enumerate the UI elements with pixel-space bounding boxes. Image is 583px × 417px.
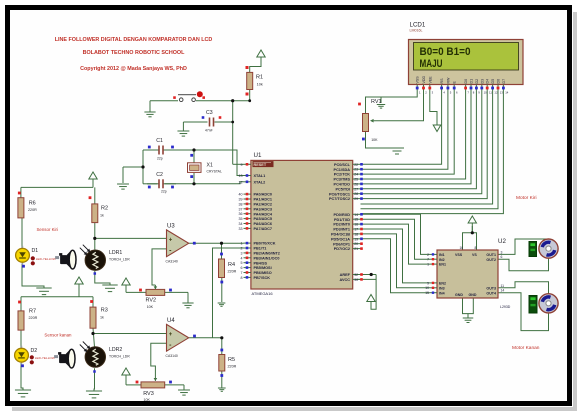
svg-text:PA3/ADC3: PA3/ADC3	[254, 207, 273, 211]
svg-text:PD1/TXD: PD1/TXD	[334, 218, 350, 222]
svg-text:PC6/TOSC1: PC6/TOSC1	[329, 192, 350, 196]
svg-text:39: 39	[239, 198, 243, 202]
svg-text:Motor Kiri: Motor Kiri	[516, 195, 537, 201]
svg-text:CRYSTAL: CRYSTAL	[207, 170, 222, 174]
svg-text:R2: R2	[101, 206, 108, 212]
svg-text:PB0/T0/XCK: PB0/T0/XCK	[254, 242, 276, 246]
svg-text:16: 16	[460, 246, 464, 250]
svg-text:D4: D4	[486, 79, 490, 84]
svg-text:15: 15	[354, 218, 358, 222]
svg-text:PC2/TCK: PC2/TCK	[334, 173, 351, 177]
svg-text:1: 1	[241, 242, 243, 246]
svg-text:D3: D3	[480, 79, 484, 84]
svg-text:PD2/INT0: PD2/INT0	[333, 223, 350, 227]
svg-text:18: 18	[354, 232, 358, 236]
svg-text:29: 29	[354, 197, 358, 201]
svg-text:20: 20	[354, 242, 358, 246]
svg-text:33: 33	[239, 227, 243, 231]
svg-text:6: 6	[241, 266, 243, 270]
svg-text:IN2: IN2	[439, 258, 445, 262]
svg-text:CA3140: CA3140	[166, 354, 178, 358]
svg-text:3: 3	[501, 250, 503, 254]
svg-text:Motor Kanan: Motor Kanan	[512, 345, 540, 351]
svg-text:R7: R7	[29, 309, 36, 315]
svg-text:L293D: L293D	[500, 305, 511, 309]
svg-text:10K: 10K	[144, 398, 151, 402]
svg-text:24: 24	[354, 173, 358, 177]
svg-text:23: 23	[354, 168, 358, 172]
svg-text:47nF: 47nF	[205, 129, 213, 133]
svg-text:D1: D1	[470, 79, 474, 84]
svg-text:D1: D1	[32, 248, 39, 254]
svg-text:36: 36	[239, 212, 243, 216]
svg-text:PB7/SCK: PB7/SCK	[254, 276, 271, 280]
svg-text:RV3: RV3	[143, 391, 154, 397]
svg-text:PC4/TDO: PC4/TDO	[334, 183, 351, 187]
svg-text:7: 7	[241, 271, 243, 275]
svg-text:RS: RS	[440, 78, 444, 84]
svg-text:7: 7	[427, 258, 429, 262]
svg-text:C3: C3	[206, 110, 213, 116]
svg-text:220R: 220R	[228, 270, 237, 274]
svg-text:PD0/RXD: PD0/RXD	[334, 213, 351, 217]
svg-text:ATMEGA16: ATMEGA16	[252, 291, 274, 296]
svg-text:35: 35	[239, 217, 243, 221]
svg-text:EN2: EN2	[439, 282, 446, 286]
svg-text:40: 40	[239, 193, 243, 197]
svg-text:15: 15	[425, 291, 429, 295]
svg-text:220R: 220R	[29, 316, 38, 320]
svg-text:9: 9	[427, 281, 429, 285]
svg-text:19: 19	[354, 237, 358, 241]
svg-text:10: 10	[484, 91, 488, 95]
svg-text:VEE: VEE	[428, 76, 432, 84]
svg-text:PA5/ADC5: PA5/ADC5	[254, 217, 273, 221]
svg-text:EN1: EN1	[439, 263, 446, 267]
svg-text:AREF: AREF	[340, 273, 351, 277]
svg-text:PC0/SCL: PC0/SCL	[334, 163, 351, 167]
svg-text:GND: GND	[469, 293, 477, 297]
svg-text:PB2/AIN0/INT2: PB2/AIN0/INT2	[254, 252, 280, 256]
svg-text:GND: GND	[455, 293, 463, 297]
svg-text:LDR2: LDR2	[109, 347, 122, 353]
svg-text:28: 28	[354, 192, 358, 196]
svg-text:PD3/INT1: PD3/INT1	[333, 228, 350, 232]
svg-text:U1: U1	[254, 152, 262, 159]
svg-text:10k: 10k	[257, 83, 263, 87]
svg-text:12: 12	[494, 91, 498, 95]
svg-text:27: 27	[354, 187, 358, 191]
svg-text:10K: 10K	[147, 305, 154, 309]
svg-text:37: 37	[239, 207, 243, 211]
svg-text:MAJU: MAJU	[420, 58, 443, 70]
svg-text:VSS: VSS	[416, 76, 420, 84]
svg-text:14: 14	[501, 289, 505, 293]
svg-text:PD6/ICP1: PD6/ICP1	[333, 242, 350, 246]
svg-text:2: 2	[241, 247, 243, 251]
svg-text:VS: VS	[472, 253, 477, 257]
svg-text:XTAL1: XTAL1	[254, 174, 266, 178]
svg-text:PA2/ADC2: PA2/ADC2	[254, 203, 273, 207]
svg-text:14: 14	[354, 213, 358, 217]
svg-text:R3: R3	[101, 308, 108, 314]
svg-text:D0: D0	[464, 79, 468, 84]
svg-text:U2: U2	[498, 238, 506, 245]
svg-text:1k: 1k	[100, 316, 104, 320]
svg-text:8: 8	[241, 276, 243, 280]
svg-text:CA3140: CA3140	[166, 260, 178, 264]
svg-text:4: 4	[241, 256, 243, 260]
svg-text:IN4: IN4	[439, 291, 445, 295]
svg-text:6: 6	[501, 255, 503, 259]
svg-text:34: 34	[239, 222, 243, 226]
svg-text:Sensor Kiri: Sensor Kiri	[37, 227, 58, 232]
svg-text:BOLABOT TECHNO ROBOTIC SCHOOL: BOLABOT TECHNO ROBOTIC SCHOOL	[83, 50, 186, 56]
svg-text:11: 11	[489, 91, 492, 95]
svg-text:LED-YELLOW: LED-YELLOW	[35, 356, 55, 360]
svg-text:+: +	[169, 238, 173, 244]
svg-text:VDD: VDD	[422, 76, 426, 84]
svg-text:26: 26	[354, 182, 358, 186]
svg-text:OUT4: OUT4	[486, 291, 496, 295]
svg-text:LDR1: LDR1	[109, 250, 122, 256]
svg-text:PA4/ADC4: PA4/ADC4	[254, 212, 273, 216]
svg-text:D2: D2	[475, 79, 479, 84]
svg-text:LINE FOLLOWER DIGITAL DENGAN K: LINE FOLLOWER DIGITAL DENGAN KOMPARATOR …	[55, 37, 213, 43]
svg-text:32: 32	[354, 273, 358, 277]
svg-text:16: 16	[354, 223, 358, 227]
svg-text:B0=0 B1=0: B0=0 B1=0	[420, 46, 471, 58]
svg-text:38: 38	[239, 202, 243, 206]
svg-text:220R: 220R	[228, 365, 237, 369]
svg-text:PB1/T1: PB1/T1	[254, 247, 267, 251]
svg-text:22p: 22p	[161, 190, 167, 194]
svg-text:D2: D2	[31, 348, 38, 354]
svg-text:PA0/ADC0: PA0/ADC0	[254, 193, 273, 197]
svg-text:LM016L: LM016L	[410, 29, 423, 33]
svg-text:LCD1: LCD1	[410, 22, 426, 29]
svg-text:C2: C2	[156, 172, 163, 178]
svg-text:25: 25	[354, 178, 358, 182]
svg-text:8: 8	[475, 246, 477, 250]
svg-text:D7: D7	[502, 79, 506, 84]
svg-text:PA1/ADC1: PA1/ADC1	[254, 198, 273, 202]
svg-text:1: 1	[427, 263, 429, 267]
svg-text:RW: RW	[446, 77, 450, 84]
svg-text:RV2: RV2	[146, 298, 157, 304]
svg-text:R5: R5	[228, 357, 235, 363]
svg-text:AVCC: AVCC	[340, 278, 351, 282]
svg-text:Sensor kanan: Sensor kanan	[44, 333, 72, 338]
svg-text:IN3: IN3	[439, 286, 445, 290]
svg-text:3: 3	[241, 251, 243, 255]
svg-text:U4: U4	[167, 318, 175, 324]
svg-text:+: +	[169, 332, 173, 338]
svg-text:R6: R6	[29, 201, 36, 207]
svg-text:5: 5	[241, 261, 243, 265]
svg-text:14: 14	[505, 91, 509, 95]
svg-text:PA6/ADC6: PA6/ADC6	[254, 222, 273, 226]
svg-text:220R: 220R	[28, 208, 37, 212]
svg-text:U3: U3	[167, 224, 175, 230]
svg-text:TORCH_LDR: TORCH_LDR	[109, 355, 130, 359]
svg-text:10K: 10K	[371, 138, 378, 142]
svg-text:2: 2	[427, 253, 429, 257]
svg-text:OUT2: OUT2	[486, 258, 496, 262]
svg-text:LED-YELLOW: LED-YELLOW	[36, 257, 56, 261]
svg-text:PB6/MISO: PB6/MISO	[254, 271, 272, 275]
svg-text:D5: D5	[491, 79, 495, 84]
svg-text:R1: R1	[256, 75, 263, 81]
svg-text:11: 11	[501, 284, 505, 288]
svg-text:22: 22	[354, 163, 358, 167]
svg-text:13: 13	[239, 174, 243, 178]
svg-text:XTAL2: XTAL2	[254, 180, 266, 184]
svg-text:10: 10	[425, 286, 429, 290]
svg-text:PD7/OC2: PD7/OC2	[334, 247, 350, 251]
svg-text:9: 9	[241, 163, 243, 167]
svg-text:PC7/TOSC2: PC7/TOSC2	[329, 197, 350, 201]
svg-text:PB4/SS: PB4/SS	[254, 261, 268, 265]
svg-text:RV1: RV1	[371, 99, 382, 105]
svg-text:PB3/AIN1/OC0: PB3/AIN1/OC0	[254, 256, 280, 260]
svg-text:17: 17	[354, 228, 358, 232]
svg-text:21: 21	[354, 247, 358, 251]
svg-text:1k: 1k	[100, 213, 104, 217]
svg-text:13: 13	[500, 91, 504, 95]
svg-text:PC5/TDI: PC5/TDI	[335, 187, 350, 191]
svg-text:TORCH_LDR: TORCH_LDR	[109, 258, 130, 262]
svg-text:R4: R4	[228, 262, 235, 268]
svg-text:C1: C1	[156, 138, 163, 144]
svg-text:PA7/ADC7: PA7/ADC7	[254, 227, 273, 231]
svg-text:22p: 22p	[157, 157, 163, 161]
svg-text:PD5/OC1A: PD5/OC1A	[331, 237, 350, 241]
svg-text:PB5/MOSI: PB5/MOSI	[254, 266, 272, 270]
svg-text:30: 30	[354, 278, 358, 282]
svg-text:12: 12	[239, 180, 243, 184]
svg-text:X1: X1	[207, 163, 213, 169]
svg-text:OUT1: OUT1	[486, 253, 496, 257]
svg-text:PC3/TMS: PC3/TMS	[334, 178, 351, 182]
svg-text:D6: D6	[497, 79, 501, 84]
svg-text:RESET: RESET	[254, 163, 267, 167]
svg-text:Copyright 2012 @ Mada Sanjaya: Copyright 2012 @ Mada Sanjaya WS, PhD	[80, 66, 187, 72]
svg-text:PC1/SDA: PC1/SDA	[334, 168, 351, 172]
svg-text:IN1: IN1	[439, 253, 445, 257]
svg-text:VSS: VSS	[455, 253, 463, 257]
svg-text:PD4/OC1B: PD4/OC1B	[331, 233, 350, 237]
svg-text:OUT3: OUT3	[486, 286, 496, 290]
